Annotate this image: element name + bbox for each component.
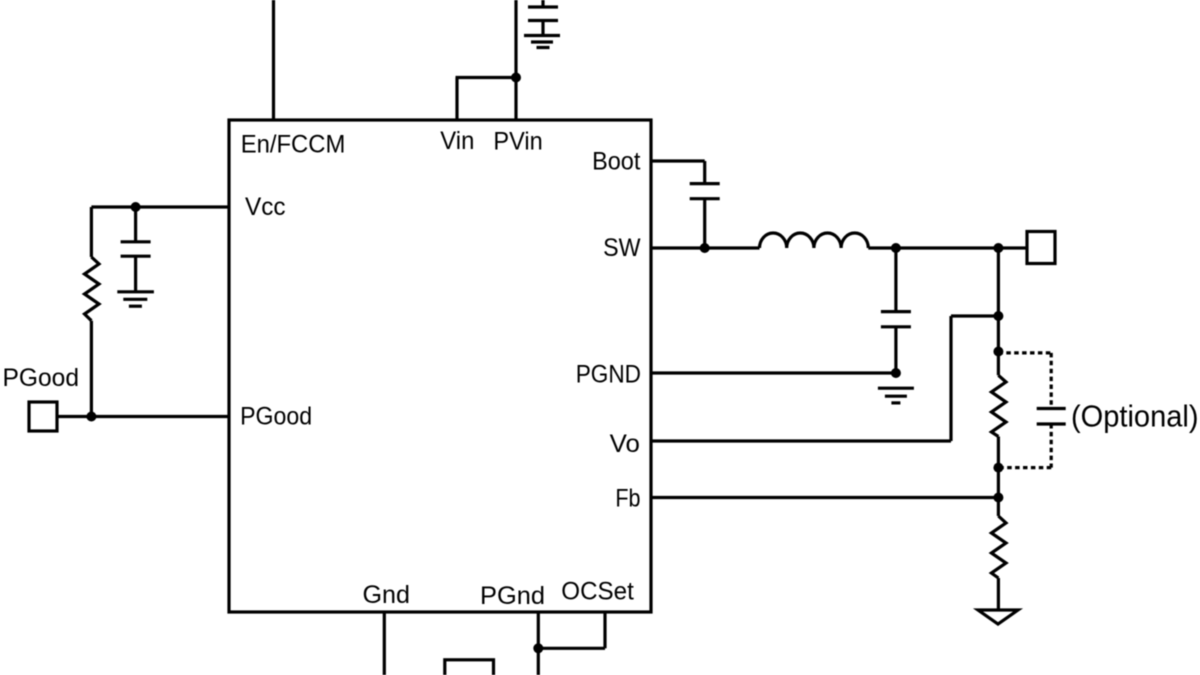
wire Vin stem [455, 78, 458, 121]
node dot PGND cap junction [891, 368, 901, 378]
svg-text:PVin: PVin [493, 128, 542, 156]
wire PGND [651, 371, 896, 374]
pad (bottom, partial) [445, 660, 494, 675]
wire Fb [651, 496, 998, 499]
node dot SW output cap junction [891, 243, 901, 253]
wire En/FCCM to top edge [272, 0, 275, 120]
svg-text:Vcc: Vcc [245, 193, 286, 221]
wire R2 bottom to Fb node [997, 437, 1000, 517]
IC U1 body [229, 120, 651, 612]
wire dashed (optional cap) [998, 353, 1051, 468]
pad Vout [1027, 232, 1055, 264]
svg-text:PGND: PGND [576, 360, 641, 388]
wire Vcc [91, 205, 229, 208]
svg-text:OCSet: OCSet [561, 578, 634, 606]
wire Vin-PVin link [456, 76, 517, 79]
resistor R1 (PGood pull-up) [85, 207, 100, 417]
node dot optional cap bottom [993, 463, 1003, 473]
resistor R3 (feedback lower) [991, 516, 1006, 578]
node dot Vo sense junction [993, 311, 1003, 321]
node dot output node [993, 243, 1003, 253]
wire PGnd bottom [537, 612, 540, 675]
svg-text:En/FCCM: En/FCCM [241, 131, 346, 159]
capacitor C3 (bootstrap) [690, 161, 720, 248]
wire SW output [868, 246, 1027, 249]
node dot SW boot cap junction [700, 243, 710, 253]
node dot optional cap top [993, 347, 1003, 357]
wire PGood [57, 415, 229, 418]
ground (output cap / PGND) [878, 388, 914, 403]
svg-text:SW: SW [603, 234, 641, 262]
ground (signal, triangle) [978, 610, 1018, 624]
wire output node vertical [997, 248, 1000, 375]
wire R3 bottom to ground [997, 578, 1000, 610]
wire Gnd bottom [383, 612, 386, 675]
svg-text:Vin: Vin [440, 127, 474, 155]
pad PGood [29, 402, 57, 431]
capacitor C2 (Vcc bypass) [121, 207, 151, 292]
svg-text:Boot: Boot [592, 147, 640, 175]
node dot Fb junction [993, 493, 1003, 503]
node dot Vcc cap junction [131, 202, 141, 212]
svg-text:PGood: PGood [3, 364, 80, 392]
node dot PGood junction [86, 412, 96, 422]
wire OCSet [538, 612, 605, 648]
capacitor C4 (output) [881, 248, 911, 373]
capacitor C5 (optional feed-forward) [1037, 409, 1066, 425]
wire Boot [651, 159, 705, 162]
svg-text:Fb: Fb [615, 485, 640, 513]
svg-text:Gnd: Gnd [363, 581, 411, 609]
node dot PGnd/OCSet junction [533, 643, 543, 653]
svg-text:(Optional): (Optional) [1071, 399, 1199, 434]
wire Vo branch [651, 316, 998, 441]
capacitor C1 (input, top) [528, 0, 558, 36]
inductor L1 [760, 233, 869, 248]
ground (input cap) [524, 36, 560, 48]
svg-text:Vo: Vo [610, 430, 640, 458]
node dot Vin/PVin junction [511, 73, 521, 83]
resistor R2 (feedback upper) [991, 375, 1006, 436]
ground (Vcc cap) [117, 292, 154, 306]
wire SW [651, 246, 760, 249]
svg-text:PGood: PGood [240, 403, 312, 431]
wire PVin vertical [514, 0, 517, 120]
svg-text:PGnd: PGnd [480, 582, 545, 610]
